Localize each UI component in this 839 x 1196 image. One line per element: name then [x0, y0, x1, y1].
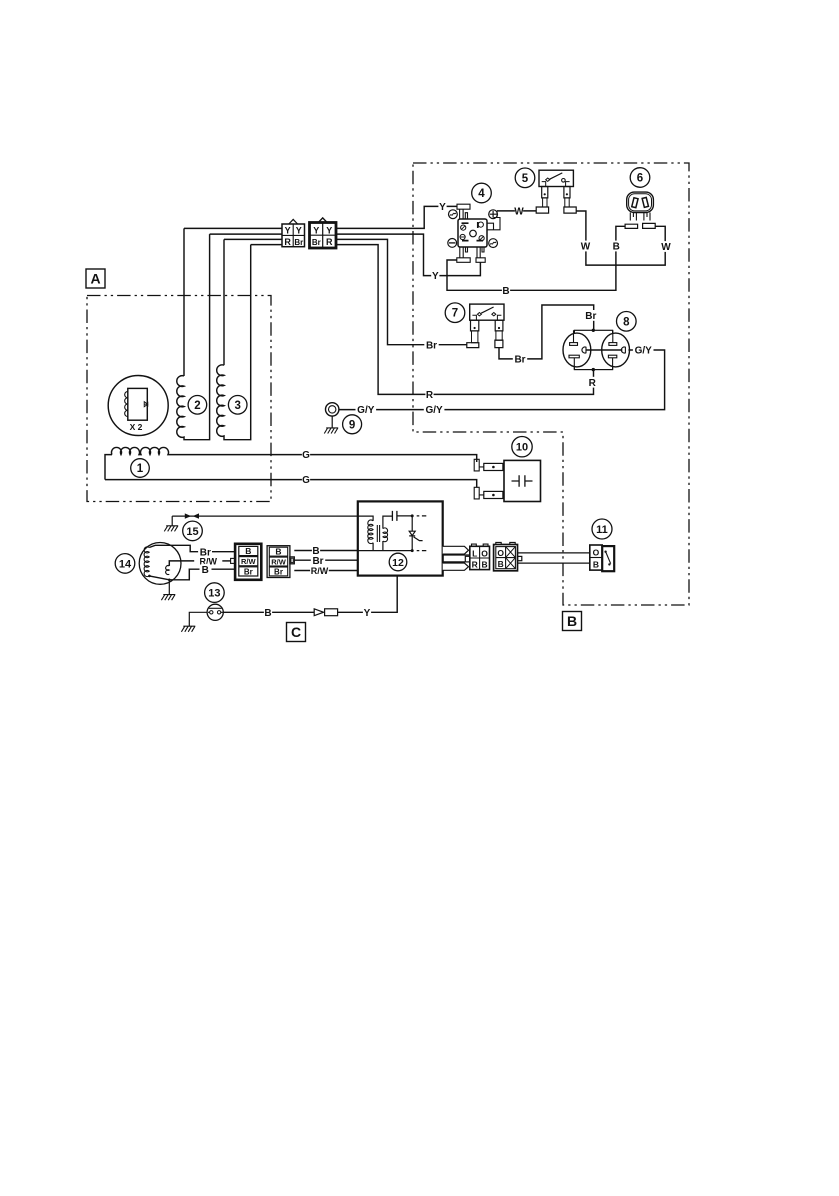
- svg-text:12: 12: [392, 557, 404, 569]
- svg-text:Y: Y: [296, 226, 302, 236]
- wire B from rectifier to receptacle 6: [447, 226, 625, 290]
- label 6: [630, 168, 650, 188]
- svg-text:Br: Br: [244, 567, 253, 576]
- wire G/Y from receptacle 8 to earth 9: [339, 350, 665, 410]
- wire G bottom to capacitor 10: [105, 480, 477, 487]
- svg-text:B: B: [613, 242, 620, 253]
- wire O to stop switch 11: [518, 552, 590, 554]
- svg-text:6: 6: [637, 173, 643, 185]
- svg-text:B: B: [245, 546, 251, 556]
- wire Y from fuse to CDI: [338, 576, 398, 613]
- svg-text:W: W: [514, 207, 524, 218]
- switch 5: [536, 170, 576, 213]
- svg-text:W: W: [581, 242, 591, 253]
- thyristor in CDI: [409, 516, 422, 551]
- svg-text:Br: Br: [514, 355, 525, 366]
- ground of 15: [164, 526, 178, 532]
- svg-text:R: R: [472, 560, 478, 570]
- arrow pair 15: [185, 513, 199, 518]
- CDI output pin top: [443, 546, 469, 554]
- svg-text:3: 3: [234, 400, 240, 412]
- connector block (thin) B R/W Br: [267, 546, 294, 578]
- connector O x / B x: [494, 542, 522, 570]
- wire to connector (row3): [224, 238, 282, 240]
- wire Y to rectifier top: [336, 206, 457, 228]
- wire Br to switch 7: [336, 239, 467, 344]
- earth terminal 9: [326, 403, 339, 428]
- svg-text:B: B: [498, 559, 504, 569]
- unit A boundary (magneto): [87, 296, 271, 502]
- label 13: [205, 583, 225, 603]
- svg-text:B: B: [593, 560, 599, 570]
- rectifier unit 4: [448, 204, 500, 262]
- label 9: [343, 415, 362, 434]
- screw minus bottom-left: [448, 239, 457, 248]
- svg-text:B: B: [482, 560, 488, 570]
- spark gap 13: [189, 604, 223, 626]
- wire Br to connector: [212, 551, 235, 553]
- label C: [287, 623, 306, 642]
- svg-text:G: G: [302, 450, 310, 461]
- switch 7: [467, 304, 504, 348]
- wire W from rectifier to switch 5: [497, 210, 536, 212]
- receptacle 6: [625, 192, 655, 228]
- wire B to CDI: [294, 550, 358, 552]
- wire B from 13 to fuse: [223, 611, 314, 613]
- svg-text:Y: Y: [313, 225, 319, 235]
- charge coil 2: [177, 228, 210, 439]
- wire Y from coil to connector (row1): [184, 227, 282, 229]
- label 2: [188, 396, 207, 415]
- svg-text:13: 13: [208, 588, 220, 600]
- svg-text:Y: Y: [285, 226, 291, 236]
- transformer in CDI: [368, 520, 373, 544]
- dual receptacle 8: [563, 329, 637, 372]
- svg-text:R: R: [426, 390, 434, 401]
- wire Y to rectifier bottom: [336, 234, 480, 276]
- svg-text:B: B: [275, 547, 281, 557]
- svg-text:Br: Br: [312, 238, 321, 247]
- svg-text:R/W: R/W: [271, 558, 287, 567]
- diode/fuse symbol: [314, 609, 323, 616]
- svg-text:8: 8: [623, 316, 630, 328]
- svg-text:O: O: [497, 548, 504, 558]
- wire G top from coil 1 to capacitor 10: [170, 455, 477, 462]
- label 4: [472, 183, 492, 203]
- wire B to connector: [212, 568, 236, 570]
- svg-text:9: 9: [349, 419, 355, 431]
- svg-text:R: R: [326, 237, 333, 247]
- wire B to stop switch 11: [518, 562, 590, 564]
- svg-text:Y: Y: [326, 225, 332, 235]
- pickup coil unit 14: [139, 543, 199, 595]
- lighting coil 1: [105, 447, 170, 479]
- screw plus top-right: [489, 210, 498, 219]
- svg-text:15: 15: [186, 526, 198, 538]
- svg-text:Y: Y: [364, 608, 371, 619]
- svg-text:G: G: [302, 475, 310, 486]
- svg-text:L: L: [472, 548, 477, 558]
- svg-text:O: O: [481, 548, 488, 558]
- wire to connector (row4): [251, 244, 282, 246]
- connector L O / R B: [470, 544, 490, 570]
- connector (male, bold) Y Y / Br R: [310, 218, 337, 248]
- engine stop switch 11: [590, 545, 614, 571]
- svg-text:Y: Y: [432, 271, 439, 282]
- label 11: [592, 519, 612, 539]
- wire Br from switch 7 to receptacle 8: [499, 305, 594, 359]
- svg-text:B: B: [264, 608, 271, 619]
- svg-text:G/Y: G/Y: [357, 405, 375, 416]
- connector (female) Y Y / R Br: [282, 219, 305, 246]
- wire Br to CDI: [294, 559, 358, 561]
- svg-text:G/Y: G/Y: [635, 346, 653, 357]
- label 1: [131, 459, 150, 478]
- svg-text:10: 10: [516, 442, 528, 454]
- label 5: [515, 168, 535, 188]
- ground of 13: [181, 626, 195, 632]
- svg-text:B: B: [202, 565, 209, 576]
- label 7: [445, 303, 465, 323]
- label A: [86, 269, 105, 288]
- svg-text:O: O: [593, 548, 600, 558]
- screw AC top-left: [449, 210, 458, 219]
- ground of 9: [324, 428, 338, 434]
- CDI output pin middle: [443, 555, 470, 562]
- svg-text:C: C: [291, 624, 301, 640]
- svg-text:W: W: [661, 242, 671, 253]
- svg-text:G/Y: G/Y: [425, 405, 443, 416]
- capacitor in CDI: [392, 511, 412, 521]
- wire R/W to CDI: [294, 570, 358, 572]
- label 3: [228, 396, 247, 415]
- CDI unit 12: [358, 501, 443, 575]
- svg-text:2: 2: [194, 400, 200, 412]
- connector block (bold) B R/W Br: [231, 544, 262, 580]
- svg-text:Br: Br: [274, 568, 283, 577]
- CDI output pin bottom: [443, 563, 469, 570]
- svg-text:4: 4: [478, 188, 485, 200]
- svg-text:B: B: [567, 613, 577, 629]
- unit B boundary: [413, 163, 689, 605]
- svg-text:11: 11: [596, 524, 608, 536]
- ignition source coil circle with X2: [108, 376, 168, 436]
- screw AC bottom-right: [489, 239, 498, 248]
- wire W from switch 5 to receptacle 6: [576, 211, 665, 265]
- svg-text:R/W: R/W: [241, 557, 257, 566]
- svg-text:1: 1: [137, 463, 144, 475]
- svg-text:A: A: [90, 271, 100, 287]
- svg-text:X 2: X 2: [130, 422, 143, 432]
- label 10: [512, 437, 532, 457]
- svg-text:Y: Y: [439, 202, 446, 213]
- svg-text:R/W: R/W: [311, 566, 329, 576]
- lighting coil 3: [217, 239, 251, 439]
- label 15: [183, 521, 203, 541]
- label 12: [389, 553, 407, 571]
- capacitor unit 10: [474, 459, 540, 501]
- svg-text:Br: Br: [426, 340, 437, 351]
- svg-text:B: B: [502, 286, 509, 297]
- wire R/W to connector: [222, 560, 230, 562]
- svg-text:R: R: [284, 237, 291, 247]
- svg-text:7: 7: [452, 308, 458, 320]
- svg-text:Br: Br: [294, 238, 303, 247]
- wire R to connector (row2): [210, 233, 282, 235]
- wire R to receptacle 8 bottom: [336, 245, 594, 395]
- label 8: [617, 312, 637, 332]
- label 14: [115, 554, 135, 574]
- ground of 14: [161, 595, 175, 601]
- svg-text:R: R: [589, 378, 597, 389]
- svg-text:Br: Br: [585, 311, 596, 322]
- svg-text:14: 14: [119, 558, 132, 570]
- wire from earth 15 to CDI unit: [172, 516, 358, 526]
- svg-text:5: 5: [522, 173, 529, 185]
- label B: [563, 612, 582, 631]
